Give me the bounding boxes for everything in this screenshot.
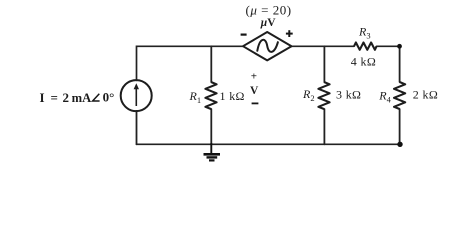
svg-text:R3: R3 <box>358 25 371 41</box>
svg-text:I: I <box>40 90 45 105</box>
wire diamond right to R3 <box>292 45 355 47</box>
resistor R2 zigzag <box>318 82 329 109</box>
resistor R4 zigzag <box>394 82 405 109</box>
svg-text:=: = <box>51 90 58 105</box>
node dot bottom-right <box>397 142 402 147</box>
svg-text:R4: R4 <box>378 89 391 105</box>
svg-text:μV: μV <box>260 17 276 29</box>
wire top-left (source to diamond left tip, with R1 tap) <box>137 46 244 80</box>
svg-text:2 kΩ: 2 kΩ <box>413 88 438 102</box>
svg-text:2: 2 <box>63 90 70 105</box>
svg-text:R1: R1 <box>189 89 202 105</box>
sine symbol inside diamond <box>257 40 278 52</box>
resistor R1 zigzag <box>205 82 216 109</box>
svg-text:4 kΩ: 4 kΩ <box>351 55 376 69</box>
svg-text:3 kΩ: 3 kΩ <box>336 88 361 102</box>
plus sign right of diamond <box>286 30 293 37</box>
angle symbol <box>93 94 100 101</box>
svg-text:mA: mA <box>72 91 92 105</box>
ground <box>204 143 221 160</box>
wire R2 branch top <box>323 46 325 82</box>
dependent source U1 diamond <box>243 32 292 60</box>
wire right branch (R4) <box>399 46 401 82</box>
svg-text:V: V <box>250 85 259 97</box>
current source arrow <box>134 83 139 106</box>
wire R1 branch top <box>210 46 212 82</box>
svg-text:(μ = 20): (μ = 20) <box>246 3 292 18</box>
resistor R3 zigzag (horizontal) <box>354 43 377 50</box>
wire bottom <box>137 143 401 145</box>
svg-text:R2: R2 <box>302 87 315 103</box>
svg-text:0°: 0° <box>103 90 115 105</box>
minus sign left of diamond <box>241 33 247 35</box>
node dot top-right <box>397 44 402 49</box>
svg-text:1 kΩ: 1 kΩ <box>220 89 245 103</box>
svg-text:+: + <box>251 71 257 83</box>
current source I circle <box>121 80 152 111</box>
wire R3 to top-right corner <box>377 45 400 47</box>
wire source bottom <box>136 111 138 144</box>
wire R1 branch bottom <box>210 109 212 144</box>
wire R2 branch bottom <box>323 109 325 144</box>
